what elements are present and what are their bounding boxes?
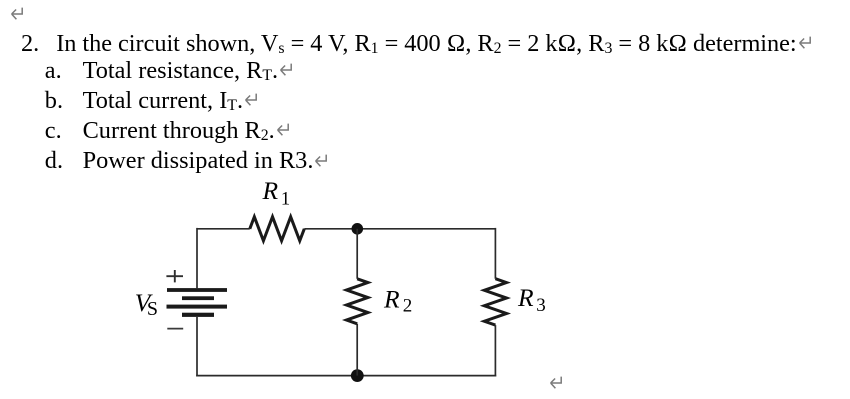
resistor R3 bbox=[484, 279, 506, 325]
wire: top node down to R2 bbox=[356, 229, 358, 279]
list item b text bbox=[83, 89, 258, 113]
paragraph mark after figure (bottom right) bbox=[549, 376, 563, 389]
list number 2. bbox=[21, 32, 39, 56]
wire: top-right corner down to R3 bbox=[494, 228, 496, 279]
svg-text:R: R bbox=[517, 283, 534, 312]
problem statement line 1 bbox=[56, 32, 811, 56]
minus sign of battery bbox=[167, 328, 183, 330]
plus sign of battery bbox=[166, 270, 183, 282]
svg-text:1: 1 bbox=[281, 190, 290, 210]
list item a marker bbox=[45, 59, 62, 83]
list item d marker bbox=[45, 149, 63, 173]
paragraph mark (empty first line) bbox=[10, 7, 24, 20]
node: top junction bbox=[352, 223, 364, 235]
svg-text:2: 2 bbox=[403, 295, 413, 316]
list item b marker bbox=[45, 89, 63, 113]
wire: bottom node to bottom-right corner bbox=[357, 375, 496, 377]
list item c text bbox=[83, 119, 290, 143]
wire: battery to bottom-left corner bbox=[196, 317, 198, 377]
wire: R1 to top node bbox=[304, 228, 357, 230]
wire: bottom-left corner to bottom node bbox=[196, 375, 357, 377]
battery VS plate 3 (long) bbox=[167, 305, 228, 309]
battery VS plate 2 (short) bbox=[182, 296, 214, 300]
label R1 bbox=[262, 176, 291, 210]
wire: R2 down to bottom node bbox=[356, 324, 358, 376]
list item c marker bbox=[45, 119, 62, 143]
battery VS plate 4 (short) bbox=[182, 313, 214, 317]
resistor R2 bbox=[347, 279, 368, 324]
list item a text bbox=[83, 59, 294, 83]
label R2 bbox=[383, 285, 412, 317]
list item d text bbox=[83, 149, 329, 173]
label VS bbox=[135, 288, 158, 320]
wire: top-left corner to R1 bbox=[197, 228, 250, 230]
label R3 bbox=[517, 283, 546, 316]
svg-text:S: S bbox=[147, 298, 158, 320]
wire: R3 down to bottom-right corner bbox=[494, 325, 496, 376]
svg-text:3: 3 bbox=[536, 295, 546, 316]
resistor R1 bbox=[250, 217, 304, 241]
svg-text:R: R bbox=[262, 176, 279, 205]
svg-text:R: R bbox=[383, 285, 400, 314]
wire: left vertical from top corner to battery bbox=[196, 228, 198, 288]
wire: top node to top-right corner bbox=[357, 228, 495, 230]
battery VS plate 1 (long, +) bbox=[167, 288, 227, 292]
node: bottom junction bbox=[351, 369, 364, 382]
